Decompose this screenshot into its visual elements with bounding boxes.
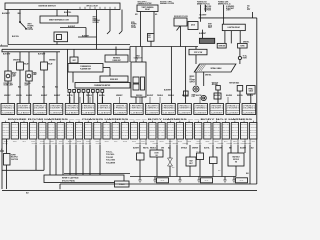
svg-text:POWER: POWER bbox=[28, 25, 35, 27]
svg-text:GRN/WHT: GRN/WHT bbox=[140, 124, 146, 126]
svg-text:WHT/BLK: WHT/BLK bbox=[131, 132, 137, 134]
svg-text:WHT/BLK: WHT/BLK bbox=[158, 132, 164, 134]
svg-text:C-4 BODY: C-4 BODY bbox=[115, 112, 127, 114]
svg-text:BLK/YEL: BLK/YEL bbox=[232, 132, 239, 134]
svg-text:BLK/YEL: BLK/YEL bbox=[250, 132, 257, 134]
svg-text:GRN/YEL: GRN/YEL bbox=[213, 127, 220, 129]
svg-text:BLK/WHT: BLK/WHT bbox=[68, 26, 75, 28]
svg-text:STOP LP SW: STOP LP SW bbox=[194, 52, 203, 54]
svg-text:1 BLU/WHT 5: 1 BLU/WHT 5 bbox=[146, 105, 159, 107]
svg-text:BLK/WHT: BLK/WHT bbox=[199, 33, 206, 35]
svg-text:W/B: W/B bbox=[18, 13, 22, 15]
svg-text:BLK/WHT: BLK/WHT bbox=[166, 143, 172, 145]
svg-text:WITH: WITH bbox=[28, 24, 33, 26]
svg-text:G GRN/RED: G GRN/RED bbox=[226, 6, 234, 8]
svg-text:GRN/YEL: GRN/YEL bbox=[39, 124, 46, 126]
svg-text:EL-09: EL-09 bbox=[161, 180, 165, 182]
svg-text:WHT/BLK: WHT/BLK bbox=[67, 129, 73, 131]
svg-text:BLK/YEL: BLK/YEL bbox=[103, 127, 110, 129]
svg-text:SPIRAL CABLE: SPIRAL CABLE bbox=[210, 67, 221, 70]
svg-text:RED/BLU: RED/BLU bbox=[173, 143, 179, 145]
svg-text:RED/GRN: RED/GRN bbox=[168, 135, 174, 137]
svg-text:YEL/G: YEL/G bbox=[196, 141, 200, 143]
svg-text:GRN/YEL: GRN/YEL bbox=[223, 132, 230, 134]
svg-text:GRN/WHT: GRN/WHT bbox=[168, 132, 174, 134]
svg-text:GRN/WHT: GRN/WHT bbox=[3, 124, 9, 126]
svg-text:BLK/YEL: BLK/YEL bbox=[12, 135, 19, 137]
svg-text:BLK/WHT: BLK/WHT bbox=[232, 129, 239, 131]
svg-text:GRN/WHT: GRN/WHT bbox=[4, 95, 11, 97]
svg-text:GRN/RED: GRN/RED bbox=[131, 135, 137, 137]
svg-text:GRN/YEL: GRN/YEL bbox=[177, 127, 184, 129]
svg-text:PNK/BLU: PNK/BLU bbox=[122, 135, 128, 137]
svg-text:BLK/YEL: BLK/YEL bbox=[59, 143, 65, 145]
svg-text:1 BLK/WHT 5: 1 BLK/WHT 5 bbox=[18, 105, 31, 107]
svg-text:RED/G: RED/G bbox=[233, 141, 237, 143]
svg-text:LOW: LOW bbox=[192, 96, 196, 98]
svg-text:SEAT BELT: SEAT BELT bbox=[232, 156, 239, 159]
svg-text:YEL/GRN: YEL/GRN bbox=[85, 129, 91, 131]
svg-text:SW: SW bbox=[235, 162, 238, 164]
svg-text:BLK/YEL: BLK/YEL bbox=[237, 95, 243, 97]
svg-text:YEL/GRN: YEL/GRN bbox=[3, 132, 9, 134]
svg-text:YEL/GRN: YEL/GRN bbox=[94, 132, 100, 134]
svg-text:BLK/W: BLK/W bbox=[40, 141, 45, 143]
svg-text:BLU/WHT: BLU/WHT bbox=[186, 135, 193, 137]
svg-text:2 WHT/BLK 6: 2 WHT/BLK 6 bbox=[130, 107, 143, 109]
svg-text:BLK: BLK bbox=[26, 192, 29, 194]
svg-text:RED/BLU: RED/BLU bbox=[103, 135, 109, 137]
svg-text:CONNECTOR: CONNECTOR bbox=[134, 58, 143, 60]
svg-text:C-4 BODY: C-4 BODY bbox=[18, 112, 30, 114]
svg-text:BLK/WHT: BLK/WHT bbox=[82, 35, 89, 37]
svg-text:DOOR: DOOR bbox=[28, 27, 34, 29]
svg-text:ASCD: ASCD bbox=[191, 24, 195, 27]
svg-text:GRN/YEL: GRN/YEL bbox=[158, 129, 165, 131]
svg-text:KEY: KEY bbox=[148, 35, 151, 37]
svg-text:JUNCTION: JUNCTION bbox=[11, 159, 18, 161]
svg-text:BLK/YEL: BLK/YEL bbox=[223, 124, 230, 126]
svg-text:BLU/R: BLU/R bbox=[31, 141, 35, 143]
svg-text:2 BLU/RED 6: 2 BLU/RED 6 bbox=[66, 107, 79, 109]
svg-text:RED/BLU: RED/BLU bbox=[140, 132, 146, 134]
svg-text:YEL/G: YEL/G bbox=[251, 141, 255, 143]
svg-text:GRN/Y: GRN/Y bbox=[95, 141, 99, 143]
svg-text:GRN/WHT: GRN/WHT bbox=[21, 132, 27, 134]
svg-text:THEFT WARNING: THEFT WARNING bbox=[142, 6, 155, 9]
svg-text:LOCKS: LOCKS bbox=[131, 27, 136, 29]
svg-text:YEL/GRN: YEL/GRN bbox=[186, 132, 192, 134]
svg-text:BLU/RED: BLU/RED bbox=[204, 127, 210, 129]
svg-text:GRN/WHT: GRN/WHT bbox=[232, 124, 238, 126]
svg-text:BLU/R: BLU/R bbox=[132, 141, 136, 143]
svg-text:POWER: POWER bbox=[131, 24, 137, 26]
svg-text:WITH AIR BAG: WITH AIR BAG bbox=[229, 82, 239, 85]
svg-text:FLASHER UNIT: FLASHER UNIT bbox=[80, 68, 91, 71]
svg-text:BLK/WHT: BLK/WHT bbox=[103, 132, 110, 134]
svg-text:WITH: WITH bbox=[208, 24, 212, 26]
svg-text:WHT/BLK: WHT/BLK bbox=[76, 135, 82, 137]
svg-text:GRN/YEL: GRN/YEL bbox=[205, 75, 212, 77]
svg-text:YEL/GRN: YEL/GRN bbox=[58, 132, 64, 134]
svg-text:YEL/GRN: YEL/GRN bbox=[39, 132, 45, 134]
svg-text:PNK/BLU: PNK/BLU bbox=[177, 132, 183, 134]
svg-text:BLU/RED: BLU/RED bbox=[122, 132, 128, 134]
svg-text:GRN/WHT: GRN/WHT bbox=[58, 127, 64, 129]
svg-text:OFF ACC ON ST: OFF ACC ON ST bbox=[86, 4, 98, 7]
svg-text:RED/GRN: RED/GRN bbox=[103, 124, 109, 126]
svg-text:[REFER TO PG-2]: [REFER TO PG-2] bbox=[197, 3, 210, 5]
svg-text:1 RED/BLU 5: 1 RED/BLU 5 bbox=[34, 105, 47, 107]
svg-text:RED/B: RED/B bbox=[206, 141, 210, 143]
svg-text:BLK: BLK bbox=[42, 87, 45, 89]
svg-text:BLK: BLK bbox=[218, 170, 221, 172]
svg-text:GRN/RED: GRN/RED bbox=[113, 127, 119, 129]
svg-text:2 BLK/WHT 6: 2 BLK/WHT 6 bbox=[82, 107, 95, 109]
svg-text:WHT/B: WHT/B bbox=[4, 141, 8, 143]
svg-text:BLK/Y: BLK/Y bbox=[224, 141, 228, 143]
svg-text:WHT/BLK: WHT/BLK bbox=[158, 135, 164, 137]
svg-text:W/R: W/R bbox=[135, 14, 138, 16]
svg-text:HORN: HORN bbox=[243, 57, 247, 59]
svg-text:BLU/RED: BLU/RED bbox=[113, 135, 119, 137]
svg-text:GRN/WHT: GRN/WHT bbox=[3, 135, 9, 137]
svg-text:CHIME UNIT: CHIME UNIT bbox=[112, 60, 121, 62]
svg-text:C-22 BODY: C-22 BODY bbox=[227, 112, 239, 114]
svg-text:BLU/WHT: BLU/WHT bbox=[85, 127, 92, 129]
svg-text:RED/BLU: RED/BLU bbox=[12, 124, 18, 126]
svg-text:GRN/WHT: GRN/WHT bbox=[13, 60, 20, 62]
svg-text:WHT/B: WHT/B bbox=[123, 141, 127, 143]
svg-text:GRN/YEL: GRN/YEL bbox=[140, 135, 147, 137]
svg-text:GRN/YEL: GRN/YEL bbox=[149, 127, 156, 129]
svg-text:RED/GRN: RED/GRN bbox=[30, 127, 36, 129]
svg-text:1 RED/GRN 5: 1 RED/GRN 5 bbox=[162, 105, 175, 107]
svg-text:YEL/GRN: YEL/GRN bbox=[3, 127, 9, 129]
svg-text:1 RED/BLU 5: 1 RED/BLU 5 bbox=[227, 105, 240, 107]
svg-text:RED/BLU: RED/BLU bbox=[149, 135, 155, 137]
svg-text:RED/G: RED/G bbox=[242, 141, 246, 143]
svg-text:2 RED/GRN 6: 2 RED/GRN 6 bbox=[162, 107, 175, 109]
svg-text:PNK/BLU: PNK/BLU bbox=[227, 143, 233, 145]
svg-text:YEL/GRN: YEL/GRN bbox=[213, 124, 219, 126]
svg-text:PNK/BLU: PNK/BLU bbox=[183, 143, 189, 145]
svg-text:C-18 BODY: C-18 BODY bbox=[131, 112, 143, 114]
svg-text:TO: TO bbox=[190, 78, 193, 80]
svg-text:1 RED/BLU 5: 1 RED/BLU 5 bbox=[178, 105, 191, 107]
svg-text:SUPER: SUPER bbox=[11, 155, 16, 157]
svg-text:C-4 BODY: C-4 BODY bbox=[147, 112, 159, 114]
svg-text:2 GRN/YEL 6: 2 GRN/YEL 6 bbox=[146, 107, 159, 109]
svg-text:1 GRN/YEL 5: 1 GRN/YEL 5 bbox=[114, 105, 127, 107]
svg-text:RED/BLU: RED/BLU bbox=[149, 129, 155, 131]
svg-text:GRN/YEL: GRN/YEL bbox=[12, 127, 19, 129]
svg-text:C-18 BODY: C-18 BODY bbox=[82, 112, 94, 114]
svg-text:W/L: W/L bbox=[155, 14, 158, 16]
svg-text:BLK/YEL: BLK/YEL bbox=[12, 36, 19, 38]
svg-text:WHT: WHT bbox=[247, 9, 250, 11]
svg-text:GRN/WHT: GRN/WHT bbox=[39, 127, 45, 129]
svg-text:RED/GRN: RED/GRN bbox=[158, 127, 164, 129]
svg-text:RED/GRN: RED/GRN bbox=[3, 129, 9, 131]
svg-text:BLU/R: BLU/R bbox=[86, 141, 90, 143]
svg-text:PNK/BLU: PNK/BLU bbox=[21, 127, 27, 129]
svg-text:YEL/G: YEL/G bbox=[59, 141, 63, 143]
svg-text:WHT/BLK: WHT/BLK bbox=[181, 147, 187, 149]
svg-text:SEAT: SEAT bbox=[189, 160, 193, 163]
svg-text:BLK/WHT: BLK/WHT bbox=[94, 129, 101, 131]
svg-text:RED/GRN: RED/GRN bbox=[223, 129, 229, 131]
svg-text:SMJ: SMJ bbox=[136, 56, 139, 58]
svg-text:SW: SW bbox=[148, 37, 151, 39]
svg-text:2 GRN/WHT 6: 2 GRN/WHT 6 bbox=[178, 107, 191, 109]
svg-text:GRN/RED: GRN/RED bbox=[67, 135, 73, 137]
svg-text:GRN/YEL: GRN/YEL bbox=[113, 124, 120, 126]
svg-text:WHT/BLK: WHT/BLK bbox=[246, 143, 252, 145]
svg-text:[REFER TO EL-6]: [REFER TO EL-6] bbox=[218, 3, 231, 5]
svg-text:RELAY: RELAY bbox=[24, 63, 29, 66]
svg-text:GRN/WHT: GRN/WHT bbox=[241, 135, 247, 137]
svg-text:WHT/BLK: WHT/BLK bbox=[241, 132, 247, 134]
svg-text:GRN/RED: GRN/RED bbox=[58, 124, 64, 126]
svg-text:C-21 BODY: C-21 BODY bbox=[34, 112, 46, 114]
svg-text:BLK/YEL: BLK/YEL bbox=[99, 95, 105, 97]
svg-text:GRN/RED: GRN/RED bbox=[136, 143, 142, 145]
svg-text:YEL/G: YEL/G bbox=[114, 141, 118, 143]
svg-text:TO EL-TAIL/L: TO EL-TAIL/L bbox=[106, 153, 115, 156]
svg-text:BLU/RED: BLU/RED bbox=[195, 124, 201, 126]
svg-text:C-4 BODY: C-4 BODY bbox=[179, 112, 191, 114]
svg-text:BLU/RED: BLU/RED bbox=[168, 127, 174, 129]
svg-text:BLU/WHT: BLU/WHT bbox=[241, 129, 248, 131]
svg-text:BLK/Y: BLK/Y bbox=[141, 141, 145, 143]
svg-text:RED/BLU: RED/BLU bbox=[168, 95, 174, 97]
svg-text:GRN/WHT: GRN/WHT bbox=[94, 135, 100, 137]
svg-text:BLK/YEL: BLK/YEL bbox=[30, 129, 37, 131]
svg-text:RED/G: RED/G bbox=[169, 141, 173, 143]
svg-text:BLK/WHT: BLK/WHT bbox=[204, 129, 211, 131]
svg-text:GRN/WHT: GRN/WHT bbox=[72, 143, 78, 145]
svg-text:2 BLK/WHT 6: 2 BLK/WHT 6 bbox=[211, 107, 224, 109]
svg-text:RED/GRN: RED/GRN bbox=[216, 147, 222, 149]
svg-text:YEL/GRN: YEL/GRN bbox=[250, 135, 256, 137]
svg-text:2 RED/GRN 6: 2 RED/GRN 6 bbox=[18, 107, 31, 109]
svg-text:BLK/WHT: BLK/WHT bbox=[3, 54, 10, 56]
svg-text:BLK/YEL: BLK/YEL bbox=[30, 132, 37, 134]
svg-text:1 PNK/BLU 5: 1 PNK/BLU 5 bbox=[195, 105, 208, 107]
svg-text:RED/BLU: RED/BLU bbox=[150, 147, 156, 149]
svg-text:MULTIPLE: MULTIPLE bbox=[11, 157, 18, 159]
svg-text:BLK/YEL: BLK/YEL bbox=[204, 135, 211, 137]
svg-text:WARNING: WARNING bbox=[113, 57, 121, 60]
svg-text:BLU/RED: BLU/RED bbox=[39, 135, 45, 137]
svg-text:RED/GRN: RED/GRN bbox=[136, 95, 142, 97]
svg-text:C-2 BODY: C-2 BODY bbox=[66, 112, 78, 114]
svg-text:BLU/RED: BLU/RED bbox=[131, 127, 137, 129]
svg-text:C-25 BODY: C-25 BODY bbox=[243, 112, 255, 114]
svg-text:BLK/YEL: BLK/YEL bbox=[67, 124, 74, 126]
svg-text:COMBINATION METER: COMBINATION METER bbox=[94, 84, 111, 87]
svg-text:WHT/BLK: WHT/BLK bbox=[86, 143, 92, 145]
svg-text:RED/GRN: RED/GRN bbox=[58, 129, 64, 131]
svg-text:BLK/WHT: BLK/WHT bbox=[54, 95, 60, 97]
svg-text:WITH THEFT: WITH THEFT bbox=[138, 1, 147, 3]
svg-text:BLK/YEL: BLK/YEL bbox=[67, 95, 73, 97]
svg-text:2 BLU/WHT 6: 2 BLU/WHT 6 bbox=[34, 107, 47, 109]
svg-text:GRN/RED: GRN/RED bbox=[21, 135, 27, 137]
svg-text:BLU/WHT: BLU/WHT bbox=[204, 124, 211, 126]
svg-text:DIODE BOX: DIODE BOX bbox=[110, 79, 118, 81]
svg-text:BLK/YEL: BLK/YEL bbox=[213, 129, 220, 131]
svg-text:YEL/GRN: YEL/GRN bbox=[250, 127, 256, 129]
svg-text:PNK/BLU: PNK/BLU bbox=[223, 135, 229, 137]
svg-text:THEFT: THEFT bbox=[93, 18, 98, 20]
svg-text:WHT/BLK: WHT/BLK bbox=[40, 143, 46, 145]
svg-text:RED/BLU: RED/BLU bbox=[232, 135, 238, 137]
svg-text:GRN/RED: GRN/RED bbox=[85, 135, 91, 137]
svg-text:GRN/WHT: GRN/WHT bbox=[213, 132, 219, 134]
svg-text:BLK: BLK bbox=[18, 87, 21, 89]
svg-text:BLK/W: BLK/W bbox=[215, 141, 220, 143]
svg-text:UNIT: UNIT bbox=[72, 60, 75, 62]
svg-text:ENGINE ROOM HARNESS — — CHASSI: ENGINE ROOM HARNESS — — CHASSIS HARNESS … bbox=[8, 118, 252, 121]
svg-text:GRN/RED: GRN/RED bbox=[186, 127, 192, 129]
svg-text:TO EL-: TO EL- bbox=[243, 56, 248, 58]
svg-text:C-19 BODY: C-19 BODY bbox=[50, 112, 62, 114]
svg-text:SYSTEM: SYSTEM bbox=[93, 22, 100, 24]
svg-text:RED/GRN: RED/GRN bbox=[48, 132, 54, 134]
svg-text:LIGHTING RELAY: LIGHTING RELAY bbox=[228, 26, 241, 29]
svg-text:GRN/YEL: GRN/YEL bbox=[122, 127, 129, 129]
svg-text:2 BLK/WHT 6: 2 BLK/WHT 6 bbox=[50, 107, 63, 109]
svg-text:SPIRAL: SPIRAL bbox=[248, 88, 253, 91]
svg-text:1 BLK/YEL 5: 1 BLK/YEL 5 bbox=[2, 105, 15, 107]
svg-text:YEL/GRN: YEL/GRN bbox=[32, 143, 38, 145]
svg-text:FUSE BLOCK: FUSE BLOCK bbox=[197, 2, 208, 4]
svg-text:RED/BLU: RED/BLU bbox=[247, 95, 253, 97]
svg-text:BLU/RED: BLU/RED bbox=[226, 95, 232, 97]
svg-text:1 RED/BLU 5: 1 RED/BLU 5 bbox=[82, 105, 95, 107]
svg-text:PNK/BLU: PNK/BLU bbox=[131, 129, 137, 131]
svg-text:2 GRN/RED 6: 2 GRN/RED 6 bbox=[195, 107, 208, 109]
svg-text:RED/BLU: RED/BLU bbox=[204, 132, 210, 134]
svg-text:GRN/YEL: GRN/YEL bbox=[39, 129, 46, 131]
svg-text:C-14 BODY: C-14 BODY bbox=[98, 112, 110, 114]
svg-text:L WHT: L WHT bbox=[226, 10, 231, 12]
svg-text:1 RED/GRN 5: 1 RED/GRN 5 bbox=[130, 105, 143, 107]
svg-text:C-21 BODY: C-21 BODY bbox=[163, 112, 175, 114]
svg-text:BLU/RED: BLU/RED bbox=[195, 127, 201, 129]
svg-text:WITHOUT THEFT: WITHOUT THEFT bbox=[160, 1, 172, 3]
svg-text:YEL/GRN: YEL/GRN bbox=[103, 129, 109, 131]
svg-text:PNK/BLU: PNK/BLU bbox=[48, 129, 54, 131]
svg-text:BLK/WHT: BLK/WHT bbox=[182, 95, 188, 97]
svg-text:PARKING: PARKING bbox=[25, 82, 31, 85]
svg-text:(FOLDOUT PAGE): (FOLDOUT PAGE) bbox=[62, 179, 75, 182]
svg-text:B BLK/WHT: B BLK/WHT bbox=[226, 8, 234, 10]
svg-text:BLK/WHT: BLK/WHT bbox=[234, 143, 240, 145]
svg-text:RED/GRN: RED/GRN bbox=[232, 127, 238, 129]
svg-text:BLK/WHT: BLK/WHT bbox=[147, 95, 153, 97]
svg-text:BLK/YEL: BLK/YEL bbox=[48, 127, 55, 129]
svg-text:C-14 BODY: C-14 BODY bbox=[2, 112, 14, 114]
svg-text:BLK/W: BLK/W bbox=[150, 141, 155, 143]
svg-text:GRN/YEL: GRN/YEL bbox=[52, 143, 58, 145]
svg-text:1 GRN/YEL 5: 1 GRN/YEL 5 bbox=[98, 105, 111, 107]
svg-text:BLK/WHT: BLK/WHT bbox=[164, 90, 171, 92]
svg-text:GRN/WHT: GRN/WHT bbox=[196, 143, 202, 145]
svg-text:TO EL-ILL: TO EL-ILL bbox=[106, 152, 113, 154]
svg-text:BLU/WHT: BLU/WHT bbox=[41, 95, 47, 97]
svg-text:GRN/WHT: GRN/WHT bbox=[48, 135, 54, 137]
svg-text:GRN/RED: GRN/RED bbox=[49, 60, 55, 62]
svg-text:BLK/YEL: BLK/YEL bbox=[67, 127, 74, 129]
svg-text:RED/BLU: RED/BLU bbox=[113, 129, 119, 131]
svg-text:BLU/RED: BLU/RED bbox=[26, 95, 32, 97]
svg-text:YEL/GRN: YEL/GRN bbox=[96, 143, 102, 145]
svg-text:YEL/GRN: YEL/GRN bbox=[67, 132, 73, 134]
svg-text:PNK/BLU: PNK/BLU bbox=[86, 95, 92, 97]
svg-text:POWER: POWER bbox=[190, 80, 195, 82]
svg-text:BLK/YEL: BLK/YEL bbox=[195, 135, 202, 137]
svg-text:FUSIBLE LINK: FUSIBLE LINK bbox=[218, 2, 229, 4]
svg-text:C-20 BODY: C-20 BODY bbox=[211, 112, 223, 114]
svg-text:TO EL-METER: TO EL-METER bbox=[106, 162, 115, 164]
svg-text:GRN/RED: GRN/RED bbox=[218, 143, 224, 145]
svg-text:BLK/YEL: BLK/YEL bbox=[204, 147, 210, 149]
svg-text:GRN: GRN bbox=[161, 147, 164, 149]
svg-text:IGNITION SWITCH: IGNITION SWITCH bbox=[38, 5, 56, 7]
svg-text:PNK/BLU: PNK/BLU bbox=[168, 129, 174, 131]
svg-text:BLK: BLK bbox=[246, 173, 249, 175]
svg-text:BLK: BLK bbox=[172, 167, 175, 169]
svg-text:REFER TO LAST PAGE: REFER TO LAST PAGE bbox=[62, 177, 78, 180]
svg-text:WHT/B: WHT/B bbox=[105, 141, 109, 143]
svg-text:GRN/RED: GRN/RED bbox=[76, 132, 82, 134]
svg-text:RED/G: RED/G bbox=[13, 141, 17, 143]
svg-text:GRN/YEL: GRN/YEL bbox=[131, 124, 138, 126]
svg-text:YEL/GRN: YEL/GRN bbox=[122, 129, 128, 131]
svg-text:BLU/WHT: BLU/WHT bbox=[94, 124, 101, 126]
svg-text:WHT/BLK: WHT/BLK bbox=[30, 124, 36, 126]
svg-text:GRN/WHT: GRN/WHT bbox=[250, 124, 256, 126]
svg-text:TO EL-CHIME: TO EL-CHIME bbox=[106, 160, 115, 162]
svg-text:GRN/RED: GRN/RED bbox=[66, 143, 72, 145]
svg-text:BLU/W: BLU/W bbox=[178, 141, 183, 143]
svg-text:GRN/WHT: GRN/WHT bbox=[177, 124, 183, 126]
svg-text:WITH: WITH bbox=[93, 17, 97, 19]
svg-text:2 WHT/BLK 6: 2 WHT/BLK 6 bbox=[98, 107, 111, 109]
svg-text:GRN/RED: GRN/RED bbox=[76, 129, 82, 131]
svg-text:PNK/BLU: PNK/BLU bbox=[30, 135, 36, 137]
svg-text:BUCKLE: BUCKLE bbox=[233, 159, 239, 161]
svg-text:GRN/RED: GRN/RED bbox=[177, 129, 183, 131]
svg-text:KEY SW: KEY SW bbox=[196, 151, 202, 153]
svg-text:GRN/YEL: GRN/YEL bbox=[241, 127, 248, 129]
svg-text:GRN/YEL: GRN/YEL bbox=[16, 95, 22, 97]
svg-text:PNK/B: PNK/B bbox=[187, 141, 191, 143]
svg-text:DOOR: DOOR bbox=[155, 153, 159, 155]
svg-text:1 PNK/BLU 5: 1 PNK/BLU 5 bbox=[243, 105, 256, 107]
svg-text:BLU/WHT: BLU/WHT bbox=[140, 127, 147, 129]
svg-text:GRN/WHT: GRN/WHT bbox=[94, 127, 100, 129]
svg-text:BLU/RED: BLU/RED bbox=[195, 129, 201, 131]
svg-text:GRN/YEL: GRN/YEL bbox=[142, 143, 148, 145]
svg-text:YEL/GRN: YEL/GRN bbox=[158, 124, 164, 126]
svg-text:BLU/RED: BLU/RED bbox=[195, 132, 201, 134]
svg-text:GRN/WHT: GRN/WHT bbox=[192, 147, 198, 149]
svg-text:RELAY: RELAY bbox=[48, 63, 53, 66]
